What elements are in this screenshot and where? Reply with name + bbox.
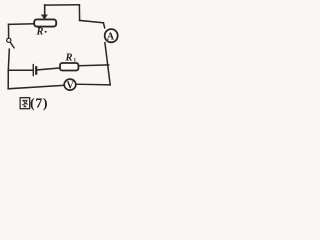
wire: right vertical (ammeter down to voltmeter rail) (105, 43, 110, 85)
svg-text:A: A (107, 32, 115, 43)
svg-text:7: 7 (35, 97, 42, 112)
ammeter A circle (105, 29, 118, 42)
label R' dot (45, 31, 47, 33)
wire: short drop into ammeter (103, 23, 104, 28)
wire: rheostat left lead (9, 23, 35, 26)
svg-text:R: R (65, 52, 73, 63)
rheostat wiper arrow stem (44, 5, 46, 15)
wire: battery to resistor R1 (37, 68, 60, 70)
battery short plate (-) (35, 67, 37, 73)
wire: left vertical lower (switch to bottom-left corner) (8, 49, 9, 89)
wire: resistor R1 to right vertical (79, 64, 109, 67)
wire: left vertical upper (to switch) (8, 24, 10, 38)
svg-text:): ) (43, 97, 48, 112)
caption glyph 图 (20, 98, 30, 109)
wire: voltmeter rail right segment (76, 83, 110, 86)
svg-text:1: 1 (73, 57, 76, 63)
switch S blade (10, 42, 14, 48)
wire: voltmeter rail left segment (8, 85, 64, 89)
wire: top rail (45, 4, 80, 6)
wire: step down from top rail (78, 5, 80, 21)
battery long plate (+) (32, 65, 34, 76)
svg-text:V: V (66, 80, 74, 91)
voltmeter V circle (64, 79, 76, 90)
wire: step horizontal to ammeter (80, 20, 104, 22)
wire: bottom rail left segment (to battery) (8, 69, 32, 71)
svg-text:R: R (36, 27, 44, 38)
resistor R1 box (60, 63, 78, 71)
svg-text:(: ( (30, 97, 35, 112)
switch S contact circle (7, 38, 11, 42)
rheostat wiper arrow head (41, 15, 48, 20)
rheostat R' box (34, 19, 56, 26)
